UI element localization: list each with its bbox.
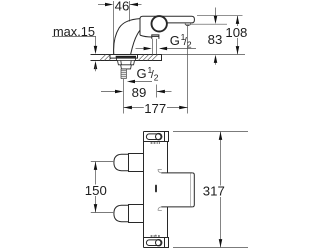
bottom cap marks xyxy=(151,235,160,237)
svg-text:317: 317 xyxy=(203,183,225,198)
label 177 xyxy=(144,101,167,116)
svg-text:108: 108 xyxy=(225,25,247,40)
svg-text:46: 46 xyxy=(115,0,130,14)
spout step right outline xyxy=(192,173,194,207)
G 1/2 upper dimension left tail xyxy=(136,48,150,50)
bottom cap outline xyxy=(144,238,169,248)
deck bottom line xyxy=(91,60,163,62)
lower inlet leg bulb xyxy=(114,205,129,221)
dimension 83 lower segment xyxy=(215,61,217,65)
dimension 89 right arrow xyxy=(157,90,165,94)
bottom cap circle xyxy=(156,240,162,246)
spout outlet nub xyxy=(185,23,191,25)
dimension 83 top arrow xyxy=(214,16,218,24)
dimension 108 line xyxy=(237,16,239,55)
svg-text:2: 2 xyxy=(187,39,192,49)
dimension 150 bottom extension line xyxy=(91,212,113,214)
dimension 177 right arrow xyxy=(179,106,187,110)
faucet head underside curve xyxy=(140,35,152,37)
max.15 arrow up xyxy=(94,61,98,69)
dimension 150 top extension line xyxy=(91,161,113,163)
dimension 177 left arrow xyxy=(124,106,132,110)
dimension 89 left arrow xyxy=(115,90,123,94)
svg-text:150: 150 xyxy=(85,183,107,198)
label G 1/2 upper xyxy=(170,32,192,49)
dimension 317 bottom arrow xyxy=(219,239,223,247)
dimension 83 bottom arrow xyxy=(214,55,218,63)
spout step bottom fillet curl xyxy=(158,207,162,211)
top cap divider xyxy=(164,132,166,142)
svg-text:G: G xyxy=(137,66,147,81)
upper inlet leg bulb xyxy=(114,154,129,170)
label G 1/2 lower xyxy=(137,65,159,82)
label 83 xyxy=(207,30,224,47)
top cap marks xyxy=(151,142,160,144)
svg-text:177: 177 xyxy=(144,101,166,116)
top cap circle xyxy=(156,133,162,139)
lever top extension line xyxy=(197,15,243,17)
dimension 46 arrow left xyxy=(105,3,113,7)
dimension 46 line right tail xyxy=(130,4,142,6)
G 1/2 upper right tail xyxy=(161,48,197,50)
faucet body back edge xyxy=(131,30,140,54)
mixer body left edge xyxy=(143,132,145,248)
flange lower ring xyxy=(117,58,136,60)
label 108 xyxy=(225,25,247,40)
dimension 46 line left tail xyxy=(98,4,111,6)
dimension 46 arrow right xyxy=(130,3,138,7)
upper inlet leg sleeve xyxy=(129,154,144,172)
svg-text:max.15: max.15 xyxy=(53,24,95,39)
max.15 leader drop line xyxy=(95,37,97,49)
dimension 46 extension line left xyxy=(113,1,115,55)
dimension 89 left tail xyxy=(101,91,121,93)
svg-text:83: 83 xyxy=(208,32,223,47)
dimension 89 right tail xyxy=(157,91,172,93)
body center slot xyxy=(155,186,157,192)
dimension 150 top arrow xyxy=(94,162,98,170)
bottom cap divider xyxy=(164,238,166,248)
G 1/2 upper arrow right-pointing xyxy=(144,47,152,51)
spout step top edge with inner extension xyxy=(161,172,192,174)
flange dark band xyxy=(116,56,136,58)
svg-text:G: G xyxy=(170,33,180,48)
deck right edge xyxy=(161,55,163,61)
top cap outline xyxy=(144,132,169,142)
label 317 xyxy=(203,183,226,198)
flange plate xyxy=(110,55,138,59)
deck hatch left xyxy=(100,55,114,61)
dimension 317 top extension line xyxy=(173,131,248,133)
knob collar xyxy=(152,35,159,39)
svg-text:89: 89 xyxy=(132,85,147,100)
G 1/2 lower leader line xyxy=(129,81,152,83)
outlet axis extension line xyxy=(187,26,189,114)
svg-text:2: 2 xyxy=(154,73,159,83)
deck level extension line right xyxy=(162,54,246,56)
label 150 xyxy=(85,183,107,198)
dimension 317 top arrow xyxy=(219,132,223,140)
dimension 83 upper segment xyxy=(215,8,217,19)
max.15 leader underline xyxy=(52,36,96,38)
spout step bottom edge with inner extension xyxy=(161,206,192,208)
backnut upper xyxy=(118,61,135,65)
cartridge knob circle xyxy=(152,16,167,31)
bottom cap arrow mark xyxy=(155,234,157,236)
dimension 108 top arrow xyxy=(236,16,240,24)
G 1/2 lower arrow xyxy=(127,80,135,84)
dimension 150 line xyxy=(95,162,97,213)
dimension 150 bottom arrow xyxy=(94,204,98,212)
shank axis extension line xyxy=(123,79,125,114)
deck hatch right xyxy=(139,55,158,61)
backnut lower xyxy=(121,65,132,69)
mixer body right edge upper xyxy=(167,142,169,173)
spout step top fillet curl xyxy=(158,169,162,173)
spout step inner line xyxy=(190,174,192,207)
top cap pill xyxy=(146,134,161,140)
outlet level extension line xyxy=(191,23,227,25)
dimension 317 line xyxy=(220,132,222,248)
label 89 xyxy=(130,85,149,100)
deck top line xyxy=(91,54,163,56)
mixer body right edge lower xyxy=(167,207,169,238)
faucet head block xyxy=(140,16,194,35)
dimension 89 right extension line xyxy=(156,85,158,98)
label 46 xyxy=(114,0,129,14)
outlet stem right line xyxy=(156,39,158,55)
threaded shank xyxy=(121,69,126,79)
lower inlet leg sleeve xyxy=(129,205,144,223)
dimension 46 extension line right xyxy=(129,1,131,22)
dimension 317 bottom extension line xyxy=(173,247,248,249)
max.15 arrow down xyxy=(94,46,98,54)
outlet stem left line xyxy=(152,39,154,55)
faucet body front edge xyxy=(114,19,140,55)
dimension 108 bottom arrow xyxy=(236,46,240,54)
bottom cap pill xyxy=(146,240,161,246)
G 1/2 upper arrow left-pointing xyxy=(159,47,167,51)
dimension 177 line xyxy=(124,107,188,109)
